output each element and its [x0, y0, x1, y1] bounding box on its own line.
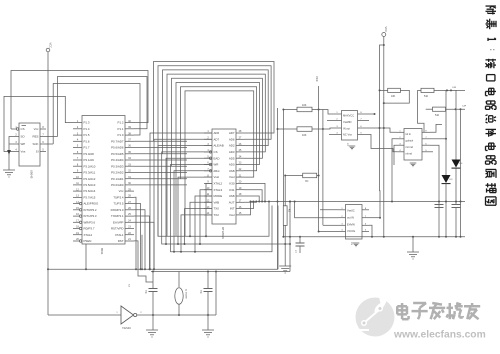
svg-text:510: 510	[435, 114, 440, 117]
svg-text:C4F: C4F	[462, 106, 467, 108]
svg-text:MAXVCC: MAXVCC	[343, 114, 354, 118]
svg-text:WR: WR	[214, 163, 219, 167]
svg-text:AD0: AD0	[229, 163, 235, 167]
svg-text:SI: SI	[36, 150, 39, 154]
svg-text:P1.0: P1.0	[118, 133, 124, 137]
svg-text:510: 510	[424, 95, 429, 98]
svg-text:K30: K30	[229, 182, 235, 186]
svg-text:RTL8019: RTL8019	[221, 227, 225, 239]
svg-text:P1.7: P1.7	[84, 146, 90, 150]
svg-text:TX0: TX0	[214, 207, 220, 211]
svg-text:P3.1/A9: P3.1/A9	[84, 158, 95, 162]
svg-text:AD3: AD3	[229, 150, 235, 154]
svg-text:ALE/AB: ALE/AB	[214, 144, 224, 148]
svg-text:P3.3/A11: P3.3/A11	[84, 171, 96, 175]
svg-text:P0.6/AD6: P0.6/AD6	[111, 146, 124, 150]
svg-text:K31: K31	[229, 188, 235, 192]
svg-text:P3.6/A14: P3.6/A14	[84, 189, 96, 193]
svg-text:VCC: VCC	[48, 43, 52, 49]
svg-text:SCK: SCK	[33, 142, 39, 146]
svg-text:Vcc: Vcc	[34, 127, 39, 131]
svg-text:CS: CS	[214, 150, 218, 154]
svg-text:P0.7/AD7: P0.7/AD7	[111, 139, 124, 143]
svg-text:P1.2: P1.2	[118, 121, 124, 125]
svg-text:XTAL2: XTAL2	[84, 233, 93, 237]
svg-text:P3.7/A15: P3.7/A15	[84, 196, 96, 200]
svg-text:P3.0/A8: P3.0/A8	[84, 152, 95, 156]
svg-text:XTAL3: XTAL3	[214, 188, 223, 192]
svg-text:out IN: out IN	[347, 215, 354, 219]
svg-text:P1.4: P1.4	[84, 127, 90, 131]
svg-text:INT: INT	[230, 207, 235, 211]
svg-text:RES: RES	[33, 135, 39, 139]
svg-text:INT1/P3.3: INT1/P3.3	[84, 214, 97, 218]
svg-text:AD6: AD6	[214, 131, 220, 135]
svg-text:CS: CS	[21, 127, 25, 131]
svg-text:P1.3: P1.3	[84, 121, 90, 125]
svg-text:EHVW: EHVW	[347, 222, 355, 226]
svg-text:Vssl: Vssl	[229, 213, 235, 217]
svg-text:WP: WP	[21, 142, 26, 146]
svg-text:golnch: golnch	[406, 138, 414, 142]
svg-text:TX2: TX2	[214, 213, 220, 217]
svg-text:VAB: VAB	[214, 200, 220, 204]
svg-text:VAB: VAB	[229, 169, 235, 173]
svg-text:P1.6: P1.6	[84, 139, 90, 143]
svg-text:R2: R2	[288, 209, 292, 213]
svg-text:rxlmd: rxlmd	[406, 152, 413, 156]
svg-text:P0.4/AD4: P0.4/AD4	[111, 158, 124, 162]
svg-text:TXD/P3.1: TXD/P3.1	[111, 214, 124, 218]
svg-text:10K: 10K	[391, 95, 396, 98]
svg-text:RXD/P3.0: RXD/P3.0	[111, 208, 124, 212]
svg-text:AD5: AD5	[229, 156, 235, 160]
svg-text:11.0592M: 11.0592M	[185, 289, 187, 299]
svg-text:P1.5: P1.5	[84, 133, 90, 137]
svg-text:www.elecfans.com: www.elecfans.com	[393, 330, 486, 341]
svg-text:VCC0s: VCC0s	[347, 229, 356, 233]
svg-text:T0/P3.4: T0/P3.4	[113, 196, 124, 200]
svg-text:EAD: EAD	[214, 156, 220, 160]
svg-text:X5045: X5045	[30, 170, 34, 179]
svg-text:P3.4/A12: P3.4/A12	[84, 177, 96, 181]
svg-text:XTAL2: XTAL2	[214, 182, 223, 186]
svg-text:P0.3/AD3: P0.3/AD3	[111, 164, 124, 168]
svg-text:EA/VPP: EA/VPP	[113, 220, 124, 224]
svg-text:P3.2/A10: P3.2/A10	[84, 164, 96, 168]
svg-text:Vss0C: Vss0C	[347, 209, 355, 213]
svg-text:74LS04: 74LS04	[122, 327, 131, 330]
svg-text:IN out: IN out	[343, 126, 350, 130]
svg-text:RST/VPD: RST/VPD	[111, 227, 124, 231]
svg-text:C4F: C4F	[452, 87, 457, 89]
svg-text:PSEN: PSEN	[84, 239, 92, 243]
svg-text:P3.5/A13: P3.5/A13	[84, 183, 96, 187]
svg-text:AD7: AD7	[229, 131, 235, 135]
svg-text:MODE: MODE	[214, 194, 223, 198]
svg-text:RD/P3.7: RD/P3.7	[84, 227, 95, 231]
svg-text:8031: 8031	[100, 248, 104, 255]
svg-text:10K: 10K	[302, 104, 307, 107]
svg-text:VCC: VCC	[315, 76, 319, 82]
svg-text:rxrnnd: rxrnnd	[406, 145, 414, 149]
svg-text:P1.1: P1.1	[118, 127, 124, 131]
svg-text:T1/P3.5: T1/P3.5	[113, 202, 124, 206]
svg-text:P0.5/AD5: P0.5/AD5	[111, 152, 124, 156]
svg-text:VAB: VAB	[229, 194, 235, 198]
svg-text:INT0/P3.2: INT0/P3.2	[84, 208, 97, 212]
svg-text:10K: 10K	[302, 134, 307, 137]
svg-text:XTAL1: XTAL1	[115, 233, 124, 237]
svg-text:RST: RST	[118, 239, 124, 243]
svg-text:XC: XC	[305, 180, 309, 183]
svg-text:AD2: AD2	[229, 144, 235, 148]
svg-text:WR/P3.6: WR/P3.6	[84, 220, 96, 224]
svg-text:P0.1/AD1: P0.1/AD1	[111, 177, 124, 181]
svg-text:Vssl: Vssl	[214, 175, 220, 179]
svg-text:AD6: AD6	[229, 137, 235, 141]
svg-text:VCC: VCC	[384, 27, 388, 33]
svg-text:tol in: tol in	[406, 132, 412, 136]
svg-text:P0.0/AD0: P0.0/AD0	[111, 183, 124, 187]
svg-text:NC Vss: NC Vss	[343, 133, 352, 137]
svg-text:Vss8IN: Vss8IN	[343, 120, 351, 124]
svg-text:Vssl: Vssl	[229, 175, 235, 179]
svg-text:Vss: Vss	[21, 150, 26, 154]
svg-text:AD7: AD7	[214, 137, 220, 141]
svg-text:Vcc: Vcc	[119, 189, 124, 193]
svg-text:dRst: dRst	[214, 169, 220, 173]
svg-text:AUT: AUT	[229, 200, 235, 204]
svg-text:P0.2/AD2: P0.2/AD2	[111, 171, 124, 175]
svg-text:ALE/PROG: ALE/PROG	[84, 202, 100, 206]
